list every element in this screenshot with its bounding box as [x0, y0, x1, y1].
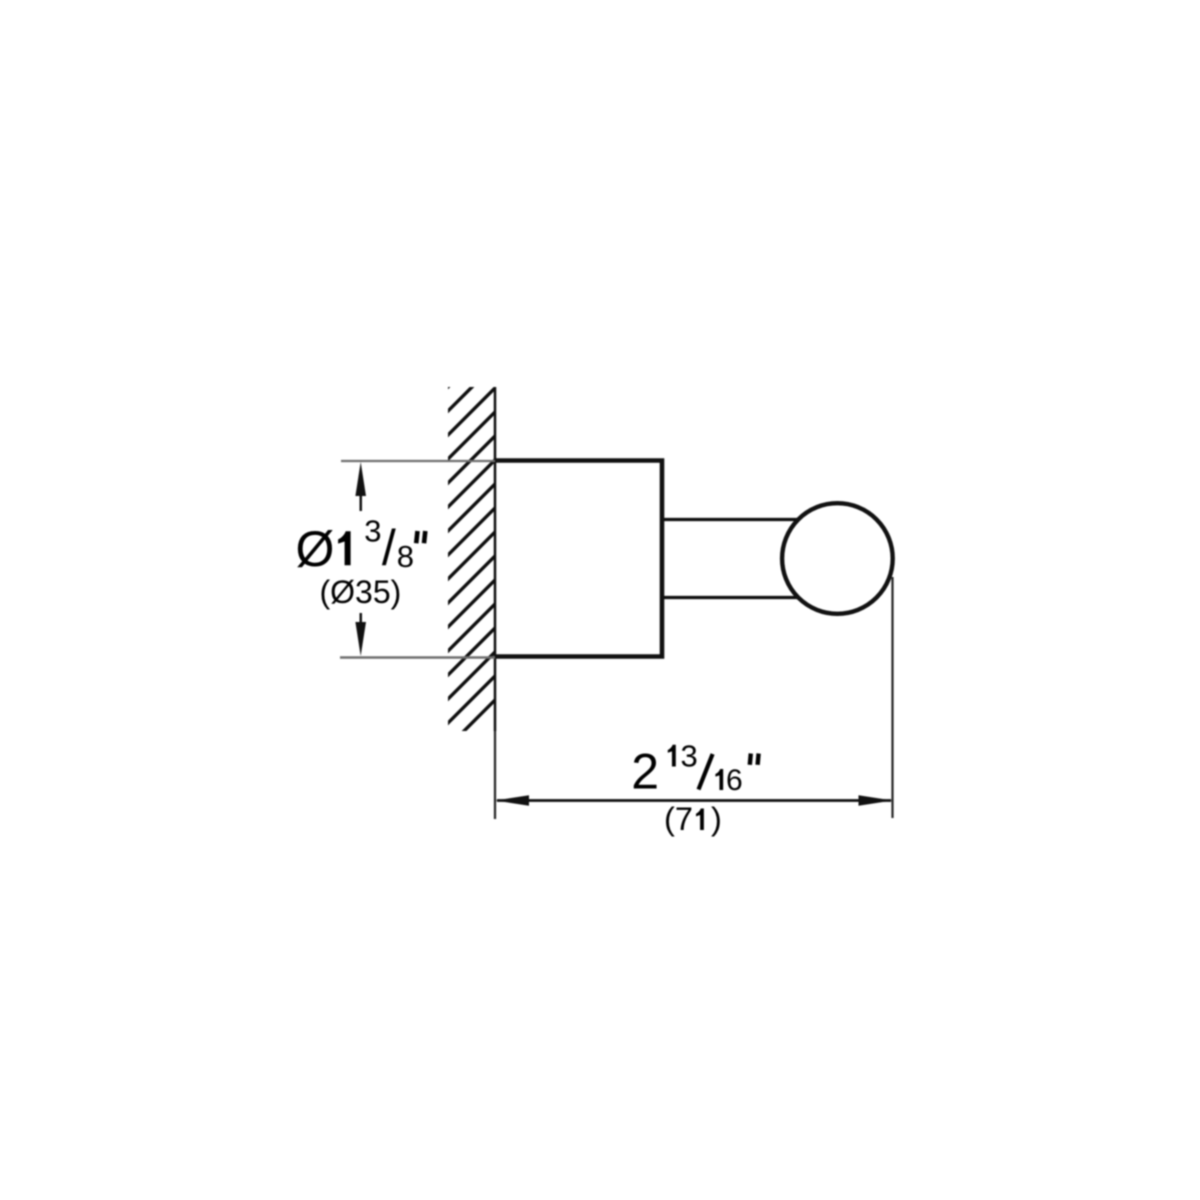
wall hatching	[424, 316, 519, 771]
extension line bottom (diameter dim)	[340, 656, 495, 658]
dim arrow left	[495, 795, 529, 805]
label dia inches	[296, 513, 426, 577]
svg-text:3: 3	[364, 513, 381, 548]
extension line left (length dim, wall continuation)	[494, 731, 496, 819]
label length inches	[631, 739, 758, 800]
svg-text:Ø: Ø	[296, 521, 335, 577]
ball (hook knob)	[782, 503, 893, 614]
svg-text:6: 6	[726, 764, 743, 797]
dim arrow right	[859, 795, 893, 805]
extension line right (length dim, from ball)	[891, 577, 893, 818]
dim arrow up	[355, 462, 366, 511]
svg-text:8: 8	[397, 539, 414, 574]
wall line	[494, 387, 497, 731]
svg-text:(7: (7	[664, 801, 693, 837]
svg-text:(Ø35): (Ø35)	[320, 574, 402, 610]
length dimension line	[497, 799, 891, 802]
extension line top (diameter dim)	[341, 460, 495, 462]
svg-text:): )	[711, 801, 722, 837]
flange (wall-mount base)	[495, 461, 662, 657]
post (hook arm)	[662, 520, 810, 598]
dim arrow down	[355, 613, 366, 656]
svg-text:/: /	[382, 520, 396, 576]
svg-text:3: 3	[681, 739, 698, 774]
svg-text:2: 2	[631, 744, 659, 800]
